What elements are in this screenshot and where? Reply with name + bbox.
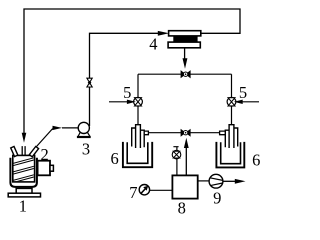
arrow outlet	[235, 179, 246, 184]
arrow into filter 4	[158, 31, 169, 36]
trap 6 right side nub	[220, 131, 226, 135]
motor 2 nub	[50, 165, 53, 171]
wire filter 4 down to manifold valve	[184, 48, 186, 59]
wire gauge 7 to box 8	[150, 189, 173, 191]
trap 6 left side nub	[144, 131, 148, 135]
svg-text:5: 5	[123, 83, 131, 102]
wire right branch	[231, 74, 233, 125]
wire trap 6 right to mid valve	[190, 132, 219, 134]
mid 3-way valve	[181, 130, 190, 136]
svg-text:2: 2	[40, 145, 48, 164]
trap 6 left inner bottle	[127, 142, 148, 163]
vessel pedestal	[16, 188, 32, 193]
3-way valve on manifold	[181, 71, 190, 78]
wire vessel outlet diagonal to pump 3	[36, 129, 52, 147]
arrow into 3-way valve	[183, 58, 188, 69]
wire manifold	[138, 73, 232, 75]
svg-text:8: 8	[178, 199, 186, 216]
wire pump 9 outlet	[223, 180, 236, 182]
vessel left nozzle	[11, 146, 18, 156]
pressure gauge 7	[139, 185, 149, 195]
mill vessel 1 outer shell	[10, 158, 37, 187]
vent valve	[172, 150, 181, 159]
wire recycle loop from filter 4 to vessel 1	[24, 9, 240, 133]
filter press U4	[168, 31, 201, 48]
drum hatch stripes	[13, 158, 34, 183]
valve on riser	[87, 78, 92, 87]
svg-text:5: 5	[239, 83, 247, 102]
motor 2 box	[38, 161, 50, 176]
svg-text:6: 6	[252, 150, 260, 169]
wire box 8 up to mid valve	[185, 148, 187, 176]
arrow into vessel 1	[22, 133, 27, 143]
wire left branch	[137, 74, 139, 125]
mill vessel 1 inner drum	[13, 155, 35, 182]
arrow into valve 5 right	[242, 101, 259, 103]
arrow up into mid valve	[184, 138, 189, 148]
trap 6 right inner step	[225, 130, 229, 147]
trap 6 right outer step	[234, 128, 238, 147]
buffer tank 8	[172, 175, 197, 198]
svg-text:9: 9	[213, 188, 221, 207]
vacuum pump 9	[209, 174, 223, 188]
valve 5 left	[134, 97, 143, 106]
arrow to pump 3	[53, 126, 63, 130]
vessel base plate	[8, 193, 40, 197]
arrow into valve 5 left	[109, 101, 128, 103]
svg-text:6: 6	[110, 149, 118, 168]
svg-text:3: 3	[82, 140, 90, 159]
trap 6 left dip tube	[136, 125, 141, 148]
trap 6 right dip tube	[229, 125, 234, 148]
cold trap 6 right : outer beaker	[216, 142, 244, 168]
vessel center nozzle	[22, 146, 25, 156]
valve 5 right	[227, 97, 236, 106]
wire box 8 to vacuum pump 9	[198, 180, 210, 182]
wire trap 6 left to mid valve	[148, 132, 181, 134]
wire pump riser	[90, 33, 159, 126]
trap 6 right inner bottle	[221, 142, 241, 163]
trap 6 left outer step	[132, 128, 136, 147]
cold trap 6 left : outer beaker	[123, 142, 152, 167]
svg-text:7: 7	[129, 183, 137, 202]
vent line on box 8	[173, 147, 178, 176]
svg-text:1: 1	[19, 197, 27, 216]
pump 3	[77, 122, 91, 137]
vessel right nozzle	[29, 146, 38, 156]
svg-text:4: 4	[149, 34, 157, 53]
trap 6 left inner step	[140, 130, 144, 147]
